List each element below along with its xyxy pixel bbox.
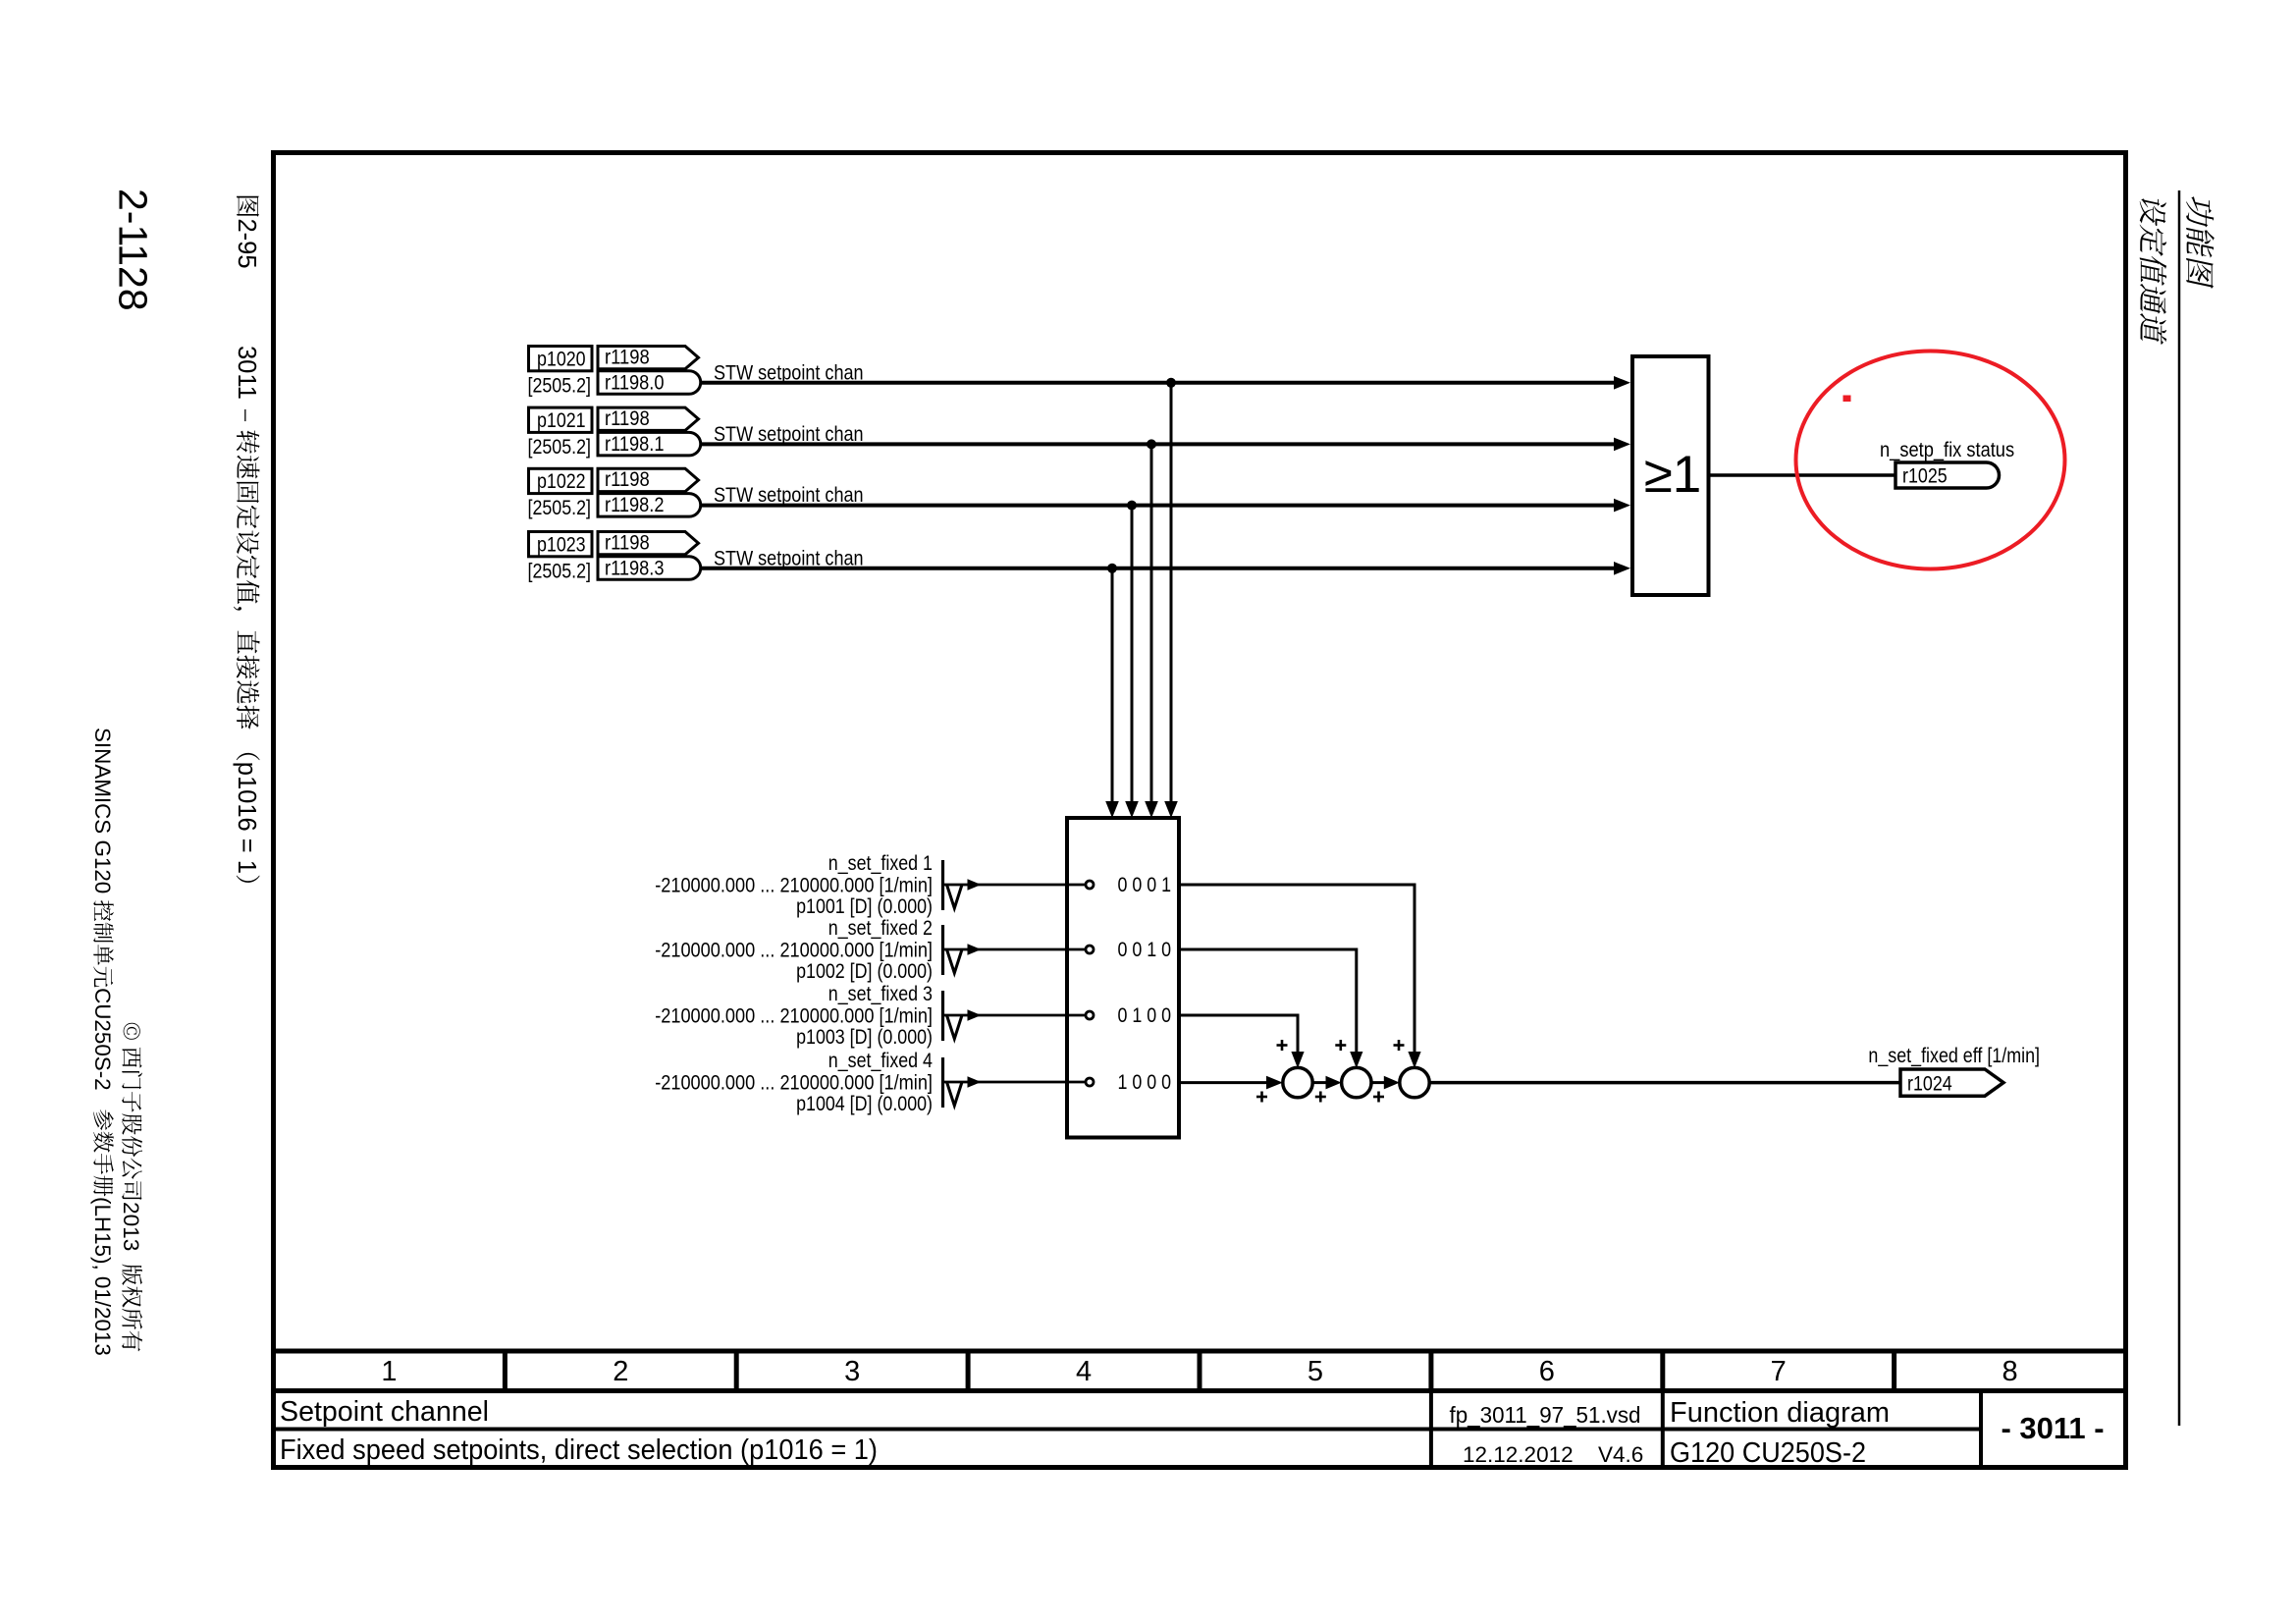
text Fixed speed setpoints [280,1434,878,1466]
arrow into adder 1 top [1291,1052,1304,1068]
plus sign top adder A3 [1394,1040,1405,1051]
arrow into OR gate input 3 [1614,499,1630,513]
svg-text:n_setp_fix status: n_setp_fix status [1880,439,2014,461]
binector word box r1198 (p1020) [598,346,699,369]
wire r1198.1 to OR gate [701,442,1616,446]
svg-text:r1025: r1025 [1902,465,1948,488]
text date and version [1463,1442,1643,1467]
wire vertical drop 3 [1131,506,1134,804]
label n_set_fixed 2 [655,917,933,983]
arrow into OR gate input 4 [1614,562,1630,575]
svg-text:Setpoint channel: Setpoint channel [280,1396,489,1428]
svg-text:fp_3011_97_51.vsd: fp_3011_97_51.vsd [1450,1402,1641,1428]
svg-text:p1004 [D] (0.000): p1004 [D] (0.000) [796,1093,933,1115]
selection block input circle 1 [1086,881,1094,889]
junction node on wire 4 [1107,564,1117,573]
connector r1025 (n_setp_fix status) [1896,462,2000,488]
parameter box p1023 [528,532,593,583]
wire OR gate output to r1025 [1710,473,1896,477]
wire adder 3 to r1024 [1429,1081,1900,1085]
svg-text:n_set_fixed 3: n_set_fixed 3 [828,983,933,1005]
label n_setp_fix status [1880,439,2014,461]
svg-text:2-1128: 2-1128 [111,189,156,311]
arrow on input wire 1 [968,879,982,891]
column numbers 1-8 [381,1356,2017,1387]
wire input 2 into block [944,948,1086,951]
adder A3 [1400,1067,1429,1097]
title block band bottom line [271,1388,2128,1393]
svg-text:p1023: p1023 [537,533,586,556]
title block band top line [271,1349,2128,1354]
arrow on input wire 2 [968,944,982,955]
binector word box r1198 (p1021) [598,407,699,431]
label STW setpoint chan 4 [714,547,864,569]
svg-text:1: 1 [381,1356,397,1387]
text Function diagram [1670,1397,1890,1429]
svg-text:1 0 0 0: 1 0 0 0 [1118,1071,1172,1094]
svg-text:n_set_fixed 2: n_set_fixed 2 [828,917,933,940]
binary code 0 0 0 1 [1118,874,1172,896]
svg-text:r1198: r1198 [605,407,650,430]
svg-text:-210000.000 ... 210000.000 [1: -210000.000 ... 210000.000 [1/min] [655,1005,933,1028]
svg-text:6: 6 [1539,1356,1555,1387]
svg-text:r1198: r1198 [605,468,650,491]
svg-text:r1198: r1198 [605,531,650,554]
connector symbol input 1 [943,860,963,910]
left margin caption title 3011 [233,346,260,883]
label n_set_fixed eff [1/min] [1868,1045,2040,1067]
svg-text:3: 3 [844,1356,860,1387]
page frame [274,153,2126,1468]
text - 3011 - [2001,1411,2104,1445]
wire vertical drop 2 [1150,444,1153,804]
svg-text:[2505.2]: [2505.2] [528,436,592,459]
label n_set_fixed 3 [655,983,933,1049]
arrow into OR gate input 1 [1614,376,1630,390]
arrow into selection block top 1 [1164,801,1178,818]
arrow into adder 1 left [1266,1076,1283,1090]
svg-text:[2505.2]: [2505.2] [528,560,592,582]
arrow into selection block top 3 [1125,801,1139,818]
svg-text:Function diagram: Function diagram [1670,1397,1890,1429]
svg-text:[2505.2]: [2505.2] [528,374,592,397]
svg-text:r1198.2: r1198.2 [605,494,665,516]
parameter box p1021 [528,407,593,459]
connector symbol input 4 [943,1057,963,1108]
svg-text:4: 4 [1076,1356,1092,1387]
arrow into selection block top 2 [1145,801,1158,818]
wire input 4 into block [944,1081,1086,1084]
svg-text:CU250S-2: CU250S-2 [90,988,115,1091]
wire vertical drop 4 [1111,568,1114,804]
svg-text:[2505.2]: [2505.2] [528,497,592,519]
binector word box r1198 (p1023) [598,531,699,555]
svg-text:0 0 0 1: 0 0 0 1 [1118,874,1172,896]
svg-text:p1021: p1021 [537,409,586,432]
column band separators [505,1351,1894,1391]
svg-text:p1001 [D] (0.000): p1001 [D] (0.000) [796,895,933,918]
plus sign top adder A1 [1277,1040,1288,1051]
svg-text:2013: 2013 [119,1202,143,1251]
parameter box p1022 [528,468,593,519]
junction node on wire 1 [1166,378,1176,388]
svg-text:p1020: p1020 [537,348,586,370]
arrow into adder 3 top [1408,1052,1420,1068]
svg-text:p1022: p1022 [537,470,586,493]
svg-text:r1198.3: r1198.3 [605,557,665,579]
binector bit box r1198.2 [598,494,701,516]
right margin subheading 设定值通道 [2140,195,2167,347]
wire adder 1 to adder 2 [1312,1076,1341,1090]
label n_set_fixed 1 [655,852,933,918]
plus sign left adder A1 [1256,1092,1267,1103]
svg-text:r1198.0: r1198.0 [605,371,665,394]
label STW setpoint chan 3 [714,484,864,507]
wire 0001 row to adder 3 [1179,885,1415,1052]
binary code 0 0 1 0 [1118,939,1172,961]
svg-text:≥1: ≥1 [1644,446,1702,504]
OR gate U1 (>=1) [1632,356,1709,595]
left margin footer manual name [90,728,115,1356]
connector symbol input 3 [943,991,963,1041]
svg-text:-210000.000 ... 210000.000 [1: -210000.000 ... 210000.000 [1/min] [655,1072,933,1095]
junction node on wire 3 [1127,501,1137,511]
wire r1198.0 to OR gate [701,381,1616,385]
text fp_3011_97_51.vsd [1450,1402,1641,1428]
plus sign left adder A3 [1373,1092,1384,1103]
svg-text:12.12.2012: 12.12.2012 [1463,1442,1574,1467]
parameter box p1020 [528,347,593,398]
wire 0010 row to adder 2 [1179,949,1357,1052]
right margin heading 功能图 [2186,195,2215,290]
wire r1198.3 to OR gate [701,567,1616,570]
binector bit box r1198.1 [598,432,701,456]
svg-text:(LH15), 01/2013: (LH15), 01/2013 [90,1197,115,1356]
svg-text:2-95: 2-95 [233,219,260,269]
left margin caption Fig 2-95 [233,196,260,269]
svg-text:n_set_fixed 4: n_set_fixed 4 [828,1050,933,1072]
left margin footer copyright [119,1023,143,1352]
binary code 0 1 0 0 [1118,1004,1172,1027]
wire adder 2 to adder 3 [1371,1076,1400,1090]
svg-text:- 3011 -: - 3011 - [2001,1411,2104,1445]
arrow on input wire 3 [968,1009,982,1021]
adder A1 [1283,1067,1312,1097]
binector bit box r1198.3 [598,557,701,580]
svg-text:-210000.000 ... 210000.000 [1: -210000.000 ... 210000.000 [1/min] [655,875,933,897]
plus sign top adder A2 [1335,1040,1346,1051]
binary code 1 0 0 0 [1118,1071,1172,1094]
svg-text:SINAMICS G120: SINAMICS G120 [90,728,115,893]
label STW setpoint chan 1 [714,361,864,384]
selection block input circle 4 [1086,1078,1094,1086]
binector bit box r1198.0 [598,371,701,395]
svg-text:2: 2 [613,1356,628,1387]
wire vertical drop 1 [1170,383,1173,804]
wire input 3 into block [944,1014,1086,1017]
text G120 CU250S-2 [1670,1437,1866,1469]
svg-text:p1003 [D] (0.000): p1003 [D] (0.000) [796,1026,933,1049]
selection block [1067,818,1179,1138]
svg-text:n_set_fixed eff [1/min]: n_set_fixed eff [1/min] [1868,1045,2040,1067]
svg-text:7: 7 [1771,1356,1787,1387]
svg-text:n_set_fixed 1: n_set_fixed 1 [828,852,933,875]
left margin page number 2-1128 [111,189,156,311]
wire 0100 row to adder 1 [1179,1015,1298,1052]
title block 3011 box [1981,1391,2126,1468]
adder A2 [1342,1067,1371,1097]
svg-text:p1016 = 1: p1016 = 1 [233,762,260,874]
wire input 1 into block [944,884,1086,887]
svg-text:-210000.000 ... 210000.000 [1: -210000.000 ... 210000.000 [1/min] [655,940,933,962]
title block vertical sep col6/7 lower [1661,1391,1665,1468]
connector symbol input 2 [943,925,963,975]
title block vertical sep col5/6 lower [1429,1391,1433,1468]
svg-text:Fixed speed setpoints, direct: Fixed speed setpoints, direct selection … [280,1434,878,1466]
svg-text:r1198: r1198 [605,346,650,368]
right margin rule [2178,190,2181,1426]
wire 1000 row to adder 1 [1179,1081,1266,1084]
selection block input circle 3 [1086,1011,1094,1019]
svg-text:0 0 1 0: 0 0 1 0 [1118,939,1172,961]
svg-text:0 1 0 0: 0 1 0 0 [1118,1004,1172,1027]
connector r1024 (n_set_fixed eff) [1900,1069,2003,1096]
binector word box r1198 (p1022) [598,468,699,492]
svg-text:r1024: r1024 [1907,1073,1952,1096]
label n_set_fixed 4 [655,1050,933,1115]
svg-text:r1198.1: r1198.1 [605,433,665,456]
svg-text:3011: 3011 [233,346,260,400]
svg-text:G120 CU250S-2: G120 CU250S-2 [1670,1437,1866,1469]
title block middle row line [271,1428,1981,1432]
plus sign left adder A2 [1315,1092,1326,1103]
selection block input circle 2 [1086,946,1094,953]
svg-text:p1002 [D] (0.000): p1002 [D] (0.000) [796,960,933,983]
wire r1198.2 to OR gate [701,504,1616,508]
svg-text:5: 5 [1308,1356,1323,1387]
arrow into OR gate input 2 [1614,438,1630,452]
red mark dot [1843,396,1851,403]
arrow into selection block top 4 [1105,801,1119,818]
red highlight ellipse [1796,352,2065,569]
text Setpoint channel [280,1396,489,1428]
label STW setpoint chan 2 [714,423,864,446]
junction node on wire 2 [1147,439,1156,449]
arrow into adder 2 top [1350,1052,1362,1068]
svg-text:V4.6: V4.6 [1598,1442,1643,1467]
svg-text:8: 8 [2002,1356,2018,1387]
arrow on input wire 4 [968,1076,982,1088]
